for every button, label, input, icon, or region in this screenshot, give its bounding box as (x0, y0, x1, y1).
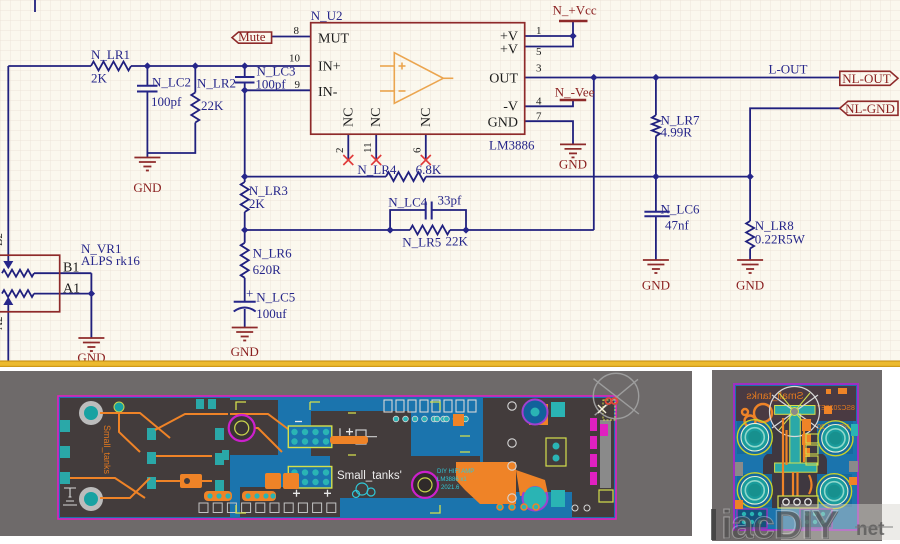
svg-text:iacDIY: iacDIY (721, 503, 839, 544)
svg-text:Small_tanks': Small_tanks' (337, 470, 402, 482)
svg-text:8SC2023E7: 8SC2023E7 (817, 405, 855, 412)
svg-text:DIY HIFI AMP: DIY HIFI AMP (437, 469, 474, 475)
svg-text:2021.6: 2021.6 (441, 485, 460, 491)
svg-text:Small_tanks: Small_tanks (102, 425, 112, 475)
svg-text:net: net (856, 519, 885, 540)
svg-text:LM3886 x1: LM3886 x1 (437, 477, 467, 483)
